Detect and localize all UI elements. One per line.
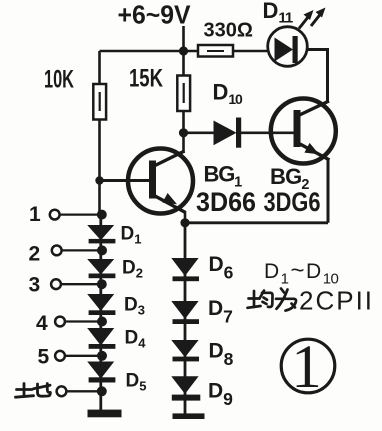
svg-text:10K: 10K xyxy=(44,66,74,94)
svg-text:3D66: 3D66 xyxy=(196,187,256,217)
svg-text:15K: 15K xyxy=(129,65,163,93)
svg-text:3DG6: 3DG6 xyxy=(264,187,321,217)
svg-text:+6~9V: +6~9V xyxy=(118,0,192,30)
svg-text:330Ω: 330Ω xyxy=(204,20,253,42)
svg-text:5: 5 xyxy=(38,346,50,369)
svg-text:1: 1 xyxy=(29,203,41,226)
svg-text:2: 2 xyxy=(29,243,41,266)
svg-text:1: 1 xyxy=(291,334,322,401)
svg-text:2CPII: 2CPII xyxy=(299,286,374,316)
svg-text:3: 3 xyxy=(29,274,41,297)
svg-text:4: 4 xyxy=(36,312,48,335)
